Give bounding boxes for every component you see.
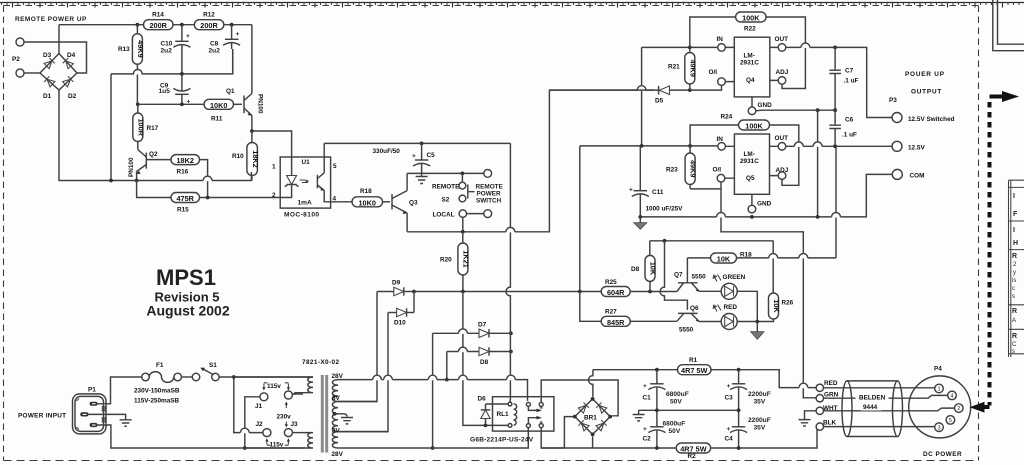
wire Q1 collector up [251,25,253,94]
node Q5 GND [750,215,754,219]
node C1 top [655,368,659,372]
wire R22 right to ADJ [766,17,805,89]
svg-text:is: is [1012,278,1016,284]
node D5/R21/O-I [688,88,692,92]
svg-text:S2: S2 [442,197,450,204]
svg-text:18K2: 18K2 [176,156,193,165]
svg-text:475R: 475R [176,194,194,203]
svg-text:49K9: 49K9 [688,59,697,76]
node C10/C9 junction [180,72,184,76]
svg-text:D4: D4 [67,52,76,59]
node 10K pill bottom [648,290,652,294]
node S1/transformer junction [232,375,236,379]
svg-text:C1: C1 [643,395,652,402]
svg-text:DC POWER: DC POWER [923,451,962,458]
regulator Q4 LM-2931C [709,36,789,115]
node D8 cathode [509,350,513,354]
svg-text:+: + [186,33,190,40]
wire Q4 OUT row (hops R22 leg) [786,47,892,117]
svg-text:+: + [236,31,240,38]
svg-text:R18: R18 [360,188,372,195]
node LED common [755,320,759,324]
wire 475R row y=197.5 [137,181,292,198]
resistor 10K pill (D8 label) [631,241,658,292]
svg-text:Q4: Q4 [746,77,755,84]
svg-text:U1: U1 [302,159,311,166]
node local/R20 junction [461,230,465,234]
wire R24 left leg [690,125,738,146]
svg-text:I: I [1013,227,1015,234]
svg-text:C: C [1012,342,1017,348]
node D9/D10 cathodes [412,290,416,294]
wire BLK through cable to pin3 [824,426,935,428]
wire raw DC rail drop to BR1 plus (hops 28V wire) [589,370,593,397]
svg-text:845R: 845R [607,318,625,327]
svg-text:+: + [629,187,633,194]
svg-text:c: c [1012,286,1015,292]
svg-text:2931C: 2931C [740,158,759,165]
svg-text:100R: 100R [137,118,146,136]
svg-text:12.5V: 12.5V [908,145,925,152]
svg-text:7821-X0-02: 7821-X0-02 [302,359,339,366]
svg-text:J2: J2 [256,421,264,428]
terminal remote post [484,170,492,178]
node 475R right riser junction [206,196,210,200]
svg-text:F1: F1 [156,362,164,369]
svg-text:OUT: OUT [775,36,789,43]
diode D8 [447,347,511,366]
svg-text:+: + [412,153,416,160]
svg-text:s: s [1012,294,1015,300]
svg-text:OUTPUT: OUTPUT [911,89,942,96]
resistor R22 (100K) [736,12,767,33]
transistor Q6 (5550) [677,305,700,334]
output wires RED/GRN/WHT/BLK [816,380,838,430]
svg-text:230v: 230v [277,414,292,421]
svg-text:12.5V Switched: 12.5V Switched [908,116,955,123]
resistor R16 (18K2) [171,155,200,176]
svg-text:RED: RED [824,380,838,387]
svg-text:POWER: POWER [477,191,502,198]
diode D6 (across coil) [478,396,491,426]
svg-text:J3: J3 [291,421,299,428]
node J1 leg on rail [243,446,247,450]
node GND drop [816,108,820,112]
wire relay lower output to bridge left [541,417,575,448]
cable labels [856,393,889,412]
svg-text:BR1: BR1 [584,415,597,422]
wire standby feed row y=291.5 (to R25/R27/LED block) [414,291,677,293]
node C10 top [180,23,184,27]
svg-text:s: s [1012,349,1015,355]
transistor Q3 [392,191,418,214]
bridge rectifier BR1 [573,397,612,436]
connector pin upper-right jumper [284,391,292,399]
node C3 top [737,368,741,372]
svg-text:100K: 100K [742,14,760,23]
svg-text:F: F [1013,211,1018,218]
svg-text:R26: R26 [782,300,794,307]
svg-text:P1: P1 [88,387,96,394]
wire D9 anode drop to 8V tap [338,292,377,402]
svg-text:C4: C4 [725,436,734,443]
wire mid rail between caps [639,409,739,411]
svg-text:18K2: 18K2 [251,150,260,167]
pin blades [90,402,98,406]
svg-text:+: + [727,426,731,433]
capacitor C2 [643,410,686,448]
svg-text:6800uF: 6800uF [663,421,686,428]
wire Q3 emitter down to control row [406,213,408,232]
svg-text:GRN: GRN [824,392,839,399]
svg-text:REMOTE POWER UP: REMOTE POWER UP [15,16,87,23]
svg-text:J1: J1 [255,403,263,410]
wire long rail y=180.5 (emitter rail) [59,90,251,181]
wire common GND rail y=216.9 (hops O/I drop and C6 leg) [640,174,892,217]
wire D10 cathode up to node [413,292,415,313]
ground at P1 [120,420,132,426]
wire R13/R17 vertical through y=104.3 row [137,104,139,113]
ground below C5 [416,177,428,184]
switch S2 row: remote [407,172,484,174]
node D7 cathode [509,331,513,335]
svg-text:R21: R21 [668,64,680,71]
connector pin J3 [284,421,298,437]
svg-text:GND: GND [757,201,772,208]
svg-text:1: 1 [937,387,940,393]
svg-text:2: 2 [957,406,960,412]
wire Q1 emitter down [251,116,253,132]
wire R17 bottom to Q2 collector [137,142,139,150]
connector pin J1 [255,393,268,410]
svg-text:1K21: 1K21 [462,250,471,267]
node C11 bottom [638,215,642,219]
diode D9 [377,280,414,296]
node C7 bottom / C6 top [833,108,837,112]
wire O/I pin jog [690,85,722,90]
wire P1 neutral pin to bottom rail [98,425,245,448]
svg-text:GREEN: GREEN [723,274,746,281]
wire P1 line pin to fuse [98,377,142,404]
diode D10 [388,308,414,326]
svg-text:R: R [1012,333,1017,340]
LED block top rail y=240.8 [650,240,773,242]
svg-text:R15: R15 [177,207,189,214]
svg-text:R14: R14 [152,12,164,19]
node R21 top [688,46,692,50]
resistor R25 (604R) [601,279,630,297]
svg-text:35V: 35V [754,399,766,406]
wire coil top from rectifier vertical [509,400,511,403]
svg-text:R2: R2 [688,453,697,460]
node R13 top [136,23,140,27]
primary winding upper coils [292,377,313,394]
wire R18 row right (hops R26 leg and control drop) [737,257,837,259]
ruler strip along top edge [0,3,1024,8]
svg-text:I: I [1013,193,1015,200]
svg-text:+: + [643,383,647,390]
svg-text:P2: P2 [12,56,20,63]
wire D8 anode drop to 28V top wire [446,352,448,380]
svg-text:C3: C3 [725,395,734,402]
svg-text:10K0: 10K0 [210,101,227,110]
node rail/Q2 emitter [135,179,139,183]
svg-text:28V: 28V [332,373,344,380]
U1 phototransistor [317,143,352,201]
wire GND drop to common rail (hops Q5 OUT row) [817,110,819,217]
svg-text:D9: D9 [392,280,401,287]
resistor R21 (49K9 vertical) [668,47,697,90]
transistor Q2 (PN100) [128,150,158,178]
svg-text:2: 2 [272,192,276,199]
wire P2 upper pin to bridge right node [24,42,87,73]
relay contact arms [528,406,542,423]
wire P2 lower pin to bridge left node [24,72,40,74]
fuse F1 [142,362,182,382]
wire IN riser from standby feed [579,146,581,292]
node C2 bottom / C4 bottom [655,446,659,450]
svg-text:H: H [1013,240,1018,247]
wire R27 row [580,292,677,322]
wire emitter node to U1 LED anode [252,131,292,157]
svg-text:5: 5 [949,418,952,424]
svg-text:+: + [643,426,647,433]
svg-text:5550: 5550 [679,327,694,334]
capacitor C10 [161,25,191,74]
svg-text:C6: C6 [845,117,854,124]
node R23/R24 leg [688,144,692,148]
transistor Q7 (5550) [674,258,706,292]
svg-text:O/I: O/I [713,167,722,174]
diode D5 [655,86,690,105]
node C8 top [230,23,234,27]
wire 28V top tap [338,380,528,401]
wire base row y=104.3 to R11 [138,103,204,105]
svg-text:R24: R24 [721,114,733,121]
node GND drop joins [816,215,820,219]
svg-text:D6: D6 [478,396,487,403]
svg-text:2u2: 2u2 [161,48,173,55]
svg-text:2200uF: 2200uF [748,417,771,424]
wire 8V tap upper [338,401,377,403]
svg-text:GND: GND [758,102,773,109]
svg-text:D3: D3 [43,52,52,59]
wire Q2 base to R16 [146,159,171,161]
secondary windings [332,380,338,448]
svg-text:R10: R10 [232,153,244,160]
wire S1 node to primary top [234,376,313,378]
resistor R2 (4R7 5W) [676,443,710,460]
svg-text:BLK: BLK [823,420,837,427]
wire F1 to S1 [182,376,193,378]
svg-text:BELDEN: BELDEN [859,395,886,402]
resistor R15 (475R) [171,193,200,214]
svg-text:R12: R12 [203,12,215,19]
diode D7 [433,322,511,338]
svg-text:5550: 5550 [692,274,707,281]
svg-text:4R7 5W: 4R7 5W [681,366,707,375]
svg-text:6800uF: 6800uF [666,391,689,398]
node C7 top [833,46,837,50]
svg-text:2200uF: 2200uF [748,391,771,398]
resistor R23 (49K9 vertical) [666,146,698,189]
svg-text:C2: C2 [643,436,652,443]
wire Q2 emitter to rail [136,172,138,181]
svg-text:y: y [1013,270,1016,276]
svg-text:RED: RED [724,304,738,311]
wire rectified control vertical x=510.9 (hops y=291.5) [506,143,510,399]
svg-text:1: 1 [272,164,276,171]
wire J1 to bottom rail [245,397,260,448]
wire Q5 IN row [580,145,718,147]
resistor R12 [194,12,224,31]
svg-text:D2: D2 [68,93,77,100]
svg-text:COM: COM [910,173,925,180]
svg-text:R13: R13 [118,46,130,53]
svg-text:G6B-2214P-US-24V: G6B-2214P-US-24V [470,437,534,444]
wire 28V bottom tap to relay [338,428,528,448]
U1 light arrows [300,180,309,183]
wire R22 left to IN [690,17,736,47]
resistor R27 (845R) [601,309,630,327]
node C5 top [420,142,424,146]
wire bottom DC rail [541,427,817,448]
svg-text:D8: D8 [480,359,489,366]
svg-text:1u5: 1u5 [159,88,171,95]
title MPS1 Revision 5 August 2002 [146,265,229,319]
primary winding lower coils [245,433,313,448]
svg-text:115V-250maSB: 115V-250maSB [134,398,180,405]
svg-text:PN100: PN100 [128,157,135,177]
svg-text:POWER INPUT: POWER INPUT [18,413,66,420]
resistor R26 (10K vertical) [769,293,794,319]
regulator Q5 LM-2931C [713,134,789,213]
capacitor C9 [159,74,191,106]
wire node row y=73.9 with hop over R13 line [111,49,233,74]
next page revision table fragment [1009,180,1024,357]
svg-text:+: + [727,383,731,390]
core bars [321,375,324,453]
relay RL1 box [470,397,554,444]
svg-text:S1: S1 [209,362,217,369]
svg-text:ADJ: ADJ [776,69,789,76]
svg-text:OUT: OUT [775,135,789,142]
wire S1 to transformer [219,376,313,378]
node C6 bottom on OUT row [833,144,837,148]
cable BELDEN 9444 [842,381,903,437]
connector P3 outputs [889,71,955,180]
svg-text:R17: R17 [147,125,159,132]
svg-text:R23: R23 [666,167,678,174]
connector P4 (DIN) [909,366,971,438]
svg-text:2u2: 2u2 [209,48,221,55]
resistor R24 (100K) [721,114,770,131]
wire Q5 OUT row (hops R24 leg and GND drop) [786,145,892,147]
svg-text:Q7: Q7 [674,272,683,279]
resistor R20 (1K21 vertical) [440,232,471,292]
svg-text:10K: 10K [717,255,731,264]
svg-text:R: R [1012,253,1017,260]
resistor R18 (10K pull-up) [687,252,752,264]
svg-text:R25: R25 [605,279,617,286]
svg-text:330uF/50: 330uF/50 [373,148,401,155]
wire GRN through cable to pin4 [824,395,948,398]
resistor R17 (100R vertical) [133,113,159,142]
svg-text:R27: R27 [605,309,617,316]
wire Q3 collector up to switch row [406,173,408,190]
svg-text:C7: C7 [845,68,854,75]
svg-text:August 2002: August 2002 [146,303,229,319]
wire Q4 IN row [642,46,718,48]
wire RED through cable to pin1 [824,387,935,389]
wire R26 leg from top rail [772,241,774,293]
svg-text:A: A [1012,318,1016,324]
raw DC rail R1 row [593,370,816,388]
svg-text:1000 uF/25V: 1000 uF/25V [646,206,684,213]
svg-text:Q3: Q3 [409,200,418,207]
svg-text:D8: D8 [631,266,640,273]
svg-text:R: R [1012,308,1017,315]
svg-text:SWITCH: SWITCH [476,198,502,205]
LED RED [699,304,773,330]
svg-text:28V: 28V [332,451,344,458]
power entry connector P1 [73,387,107,434]
resistor R14 [144,12,174,31]
resistor R11 (10K0) [204,99,242,122]
capacitor C1 [643,370,689,411]
svg-text:MOC-8100: MOC-8100 [284,212,319,219]
svg-text:P4: P4 [934,366,942,373]
svg-text:C10: C10 [161,41,173,48]
svg-text:POUER UP: POUER UP [905,71,945,78]
svg-text:D7: D7 [478,322,487,329]
capacitor C7 [829,47,858,110]
svg-text:230V-150maSB: 230V-150maSB [134,388,180,395]
switch S2 contacts [432,173,475,203]
svg-text:Q6: Q6 [690,305,699,312]
svg-text:R16: R16 [177,169,189,176]
ground at center tap [341,418,353,424]
svg-text:REMOTE: REMOTE [476,184,504,191]
node regulator feed riser [578,290,582,294]
svg-text:R11: R11 [211,116,223,123]
capacitor C8 [209,25,241,74]
svg-text:100K: 100K [745,122,763,131]
resistor R18 (10K0, Q3 base) [352,188,390,207]
wire Q5 O/I jog and control drop [690,182,816,398]
svg-text:3: 3 [937,425,940,431]
svg-text:5: 5 [333,163,337,170]
svg-text:R20: R20 [440,257,452,264]
node D6 anode [484,424,488,428]
svg-text:REMOTE: REMOTE [432,184,460,191]
label 115v lower jumper [265,438,290,448]
node R20 bottom tee [461,290,465,294]
wire P1 earth pin to ground [89,414,126,419]
svg-text:49K9: 49K9 [689,160,698,177]
svg-text:Q1: Q1 [226,88,235,95]
connector pin J2 [256,421,271,437]
svg-text:LOCAL: LOCAL [433,212,455,219]
opto-coupler U1 MOC-8100 [272,157,337,219]
wire D10 anode drop to lower 8V tap [338,313,388,432]
svg-text:D10: D10 [394,320,406,327]
thick dashed inter-page arrow [970,91,1020,413]
svg-text:10K: 10K [772,299,781,313]
wire Q4 IN leg down to Q5 IN row [641,47,643,145]
svg-text:C11: C11 [652,189,664,196]
svg-text:D1: D1 [43,93,52,100]
